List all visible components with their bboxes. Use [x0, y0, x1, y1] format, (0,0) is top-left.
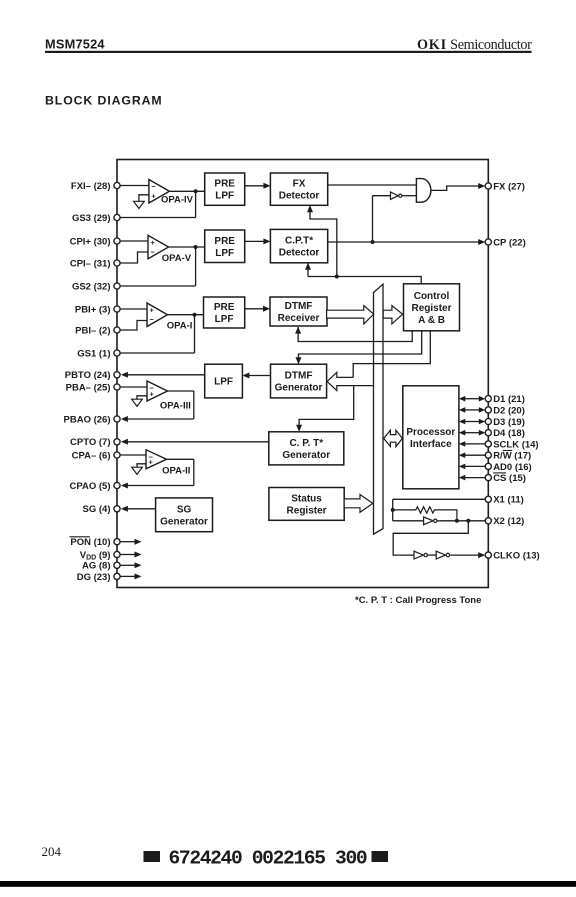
- pin PBAO (26): [64, 414, 121, 425]
- svg-text:+: +: [150, 390, 155, 399]
- bus arrow bus to DTMF Generator: [327, 372, 373, 390]
- wire data pin bidirectional: [459, 430, 485, 436]
- svg-text:FXI– (28): FXI– (28): [71, 181, 111, 192]
- wire Control Register to DTMF Receiver bottom: [295, 327, 412, 342]
- pin CPI- (31): [70, 258, 120, 269]
- wire FX Detector to AND gate: [328, 184, 417, 186]
- svg-text:204: 204: [42, 844, 62, 859]
- wire control bus to FX Detector bottom: [307, 205, 337, 276]
- wire OPA-I output to PRE LPF 3: [168, 313, 204, 317]
- block DTMF Receiver: [270, 297, 327, 326]
- wire control pin into Processor Interface: [459, 464, 485, 470]
- svg-text:Receiver: Receiver: [278, 313, 320, 324]
- pin GS1 (1): [77, 348, 120, 359]
- wire clock branch to CLKO buffers: [393, 521, 468, 555]
- svg-text:CPAO (5): CPAO (5): [70, 481, 111, 492]
- wire C.P.T Detector output to CP pin: [328, 239, 486, 245]
- svg-text:LPF: LPF: [215, 191, 234, 202]
- svg-text:Detector: Detector: [279, 248, 320, 259]
- wire PBA- to OPA-III: [120, 386, 147, 388]
- wire buffer to CLKO pin: [450, 552, 485, 558]
- svg-text:DG (23): DG (23): [77, 572, 111, 583]
- block DTMF Generator: [271, 364, 327, 398]
- svg-text:−: −: [150, 315, 155, 324]
- pin VDD: [80, 550, 120, 562]
- pin D3 (19): [485, 417, 525, 428]
- op-amp OPA-IV: [149, 180, 194, 206]
- pin PBI- (2): [75, 325, 120, 336]
- svg-text:DTMF: DTMF: [285, 301, 313, 312]
- svg-text:OPA-I: OPA-I: [167, 321, 193, 332]
- wire data pin bidirectional: [459, 407, 485, 413]
- ground for OPA-III: [132, 396, 147, 407]
- svg-text:OKI Semiconductor: OKI Semiconductor: [417, 37, 532, 53]
- block FX Detector: [270, 173, 327, 205]
- svg-text:CS (15): CS (15): [493, 473, 526, 484]
- ground for OPA-IV: [134, 195, 149, 209]
- pin FXI- (28): [71, 181, 120, 192]
- wire PRE LPF2 to C.P.T Detector: [245, 238, 271, 244]
- wire inverter to AND gate: [402, 195, 416, 197]
- pin CPA- (6): [72, 450, 120, 461]
- svg-text:D1 (21): D1 (21): [493, 394, 525, 405]
- resistor feedback R: [393, 507, 457, 521]
- wire CPA- to OPA-II: [120, 454, 146, 456]
- wire between clock buffers: [427, 554, 436, 556]
- wire OPA-III output to PBAO pin: [121, 391, 194, 422]
- pin CP (22): [485, 237, 526, 248]
- wire OPA-IV output to PRE LPF 1: [169, 189, 204, 193]
- wire control pin into Processor Interface: [459, 475, 485, 481]
- svg-text:C.P.T*: C.P.T*: [285, 236, 313, 247]
- svg-text:*C. P. T : Call Progress Tone: *C. P. T : Call Progress Tone: [355, 595, 481, 606]
- wire bus tap to C.P.T Generator top: [296, 386, 354, 432]
- svg-text:D2 (20): D2 (20): [493, 405, 525, 416]
- svg-text:A & B: A & B: [418, 315, 445, 326]
- svg-text:PBI+ (3): PBI+ (3): [75, 304, 111, 315]
- svg-text:OPA-II: OPA-II: [162, 465, 190, 476]
- clock buffer inverter 1: [414, 551, 427, 559]
- svg-text:Register: Register: [287, 505, 327, 516]
- wire CP node up to inverter: [373, 196, 391, 242]
- svg-text:6724240 0022165 300: 6724240 0022165 300: [169, 848, 367, 870]
- wire SG Generator to SG pin: [121, 506, 156, 512]
- header rule: [45, 51, 532, 53]
- pin CPI+ (30): [70, 236, 121, 247]
- wire data pin bidirectional: [459, 396, 485, 402]
- svg-text:D3 (19): D3 (19): [493, 417, 525, 428]
- pin PON: [70, 537, 121, 548]
- svg-text:OPA-IV: OPA-IV: [161, 195, 194, 206]
- svg-text:MSM7524: MSM7524: [45, 37, 105, 52]
- svg-text:PBI– (2): PBI– (2): [75, 325, 110, 336]
- svg-text:AG (8): AG (8): [82, 561, 111, 572]
- svg-text:−: −: [151, 247, 156, 256]
- clock buffer inverter 2: [436, 551, 449, 559]
- wire PRE LPF1 to FX Detector: [245, 183, 271, 189]
- pin D1 (21): [485, 394, 525, 405]
- bus arrow Processor Interface bidirectional: [384, 430, 403, 446]
- ground for OPA-II: [132, 464, 146, 475]
- svg-text:OPA-V: OPA-V: [162, 253, 192, 264]
- bus arrow Status Register to bus: [344, 495, 373, 513]
- barcode right block: [372, 851, 389, 862]
- wire control pin into Processor Interface: [459, 452, 485, 458]
- pin GS2 (32): [72, 281, 120, 292]
- wire X1/X2 left vertical: [391, 499, 395, 521]
- wire C.P.T Generator to CPTO pin: [121, 439, 269, 445]
- pin SCLK (14): [485, 439, 538, 450]
- pin FX (27): [485, 181, 525, 192]
- wire control pin into Processor Interface: [459, 441, 485, 447]
- pin D2 (20): [485, 405, 525, 416]
- svg-text:Control: Control: [414, 291, 450, 302]
- svg-text:DTMF: DTMF: [285, 371, 313, 382]
- block Control Register A and B: [404, 284, 460, 331]
- pin AG (8): [82, 561, 120, 572]
- wire LPF to PBTO pin: [121, 372, 205, 378]
- block PRE LPF 3: [204, 297, 245, 328]
- svg-text:CPTO (7): CPTO (7): [70, 437, 110, 448]
- wire X2 line: [393, 519, 486, 523]
- wire VDD input stub: [120, 552, 141, 558]
- pin DG (23): [77, 572, 120, 583]
- svg-text:CPA– (6): CPA– (6): [72, 450, 111, 461]
- svg-text:PBTO (24): PBTO (24): [65, 370, 111, 381]
- op-amp OPA-I: [147, 303, 192, 332]
- svg-text:PRE: PRE: [214, 236, 235, 247]
- wire PBI- to OPA-I inverting input: [120, 321, 147, 331]
- svg-text:X1 (11): X1 (11): [493, 495, 524, 506]
- svg-text:CPI– (31): CPI– (31): [70, 258, 111, 269]
- wire detector control line to Control Register top: [308, 275, 421, 284]
- pin X2 (12): [485, 516, 524, 527]
- svg-text:+: +: [151, 238, 156, 247]
- wire OPA-V output feedback to GS2: [120, 247, 196, 286]
- svg-text:BLOCK DIAGRAM: BLOCK DIAGRAM: [45, 94, 163, 108]
- wire OPA-I output feedback to GS1: [120, 315, 194, 353]
- pin D4 (18): [485, 428, 525, 439]
- svg-text:CPI+ (30): CPI+ (30): [70, 236, 111, 247]
- wire X1 line: [393, 498, 486, 500]
- block PRE LPF 2: [205, 230, 245, 263]
- svg-text:PON (10): PON (10): [70, 537, 110, 548]
- wire control bus to C.P.T Detector bottom: [305, 263, 311, 277]
- svg-text:FX (27): FX (27): [493, 181, 525, 192]
- svg-text:GS2 (32): GS2 (32): [72, 281, 111, 292]
- AND gate U1: [416, 179, 430, 203]
- wire FXI- to OPA-IV inverting input: [120, 185, 149, 187]
- wire DTMF Generator to LPF: [242, 373, 270, 379]
- pin SG (4): [83, 504, 121, 515]
- svg-text:PRE: PRE: [214, 302, 235, 313]
- svg-text:Generator: Generator: [275, 383, 323, 394]
- svg-text:PBA– (25): PBA– (25): [66, 382, 111, 393]
- pin X1 (11): [485, 495, 524, 506]
- op-amp OPA-III: [147, 381, 191, 411]
- svg-text:Generator: Generator: [282, 450, 330, 461]
- op-amp OPA-II: [146, 450, 190, 477]
- pin PBI+ (3): [75, 304, 120, 315]
- svg-text:PBAO (26): PBAO (26): [64, 414, 111, 425]
- block LPF: [205, 364, 243, 398]
- svg-text:+: +: [149, 457, 154, 466]
- wire DG input stub: [120, 573, 141, 579]
- svg-text:LPF: LPF: [214, 377, 233, 388]
- svg-text:SG (4): SG (4): [83, 504, 111, 515]
- pin CLKO (13): [485, 551, 539, 562]
- svg-text:Generator: Generator: [160, 516, 208, 527]
- svg-text:−: −: [151, 182, 156, 191]
- svg-text:SCLK (14): SCLK (14): [493, 439, 538, 450]
- oscillator inverter on X2 line: [424, 517, 437, 525]
- svg-text:Status: Status: [291, 493, 322, 504]
- block C.P.T Generator: [269, 432, 344, 465]
- svg-text:D4 (18): D4 (18): [493, 428, 525, 439]
- chip boundary box: [117, 160, 488, 588]
- wire data pin bidirectional: [459, 419, 485, 425]
- wire AG input stub: [120, 562, 141, 568]
- wire OPA-IV output feedback to GS3: [120, 191, 196, 217]
- bottom black bar: [0, 881, 576, 887]
- svg-text:Processor: Processor: [406, 427, 455, 438]
- wire CPI- to OPA-V inverting input: [120, 252, 148, 263]
- header logo OKI Semiconductor: [417, 37, 532, 53]
- data bus vertical band: [374, 284, 384, 534]
- wire Control Register to DTMF Generator top: [296, 331, 422, 364]
- svg-text:LPF: LPF: [215, 314, 234, 325]
- wire PON input stub: [120, 539, 141, 545]
- op-amp OPA-V: [148, 235, 192, 264]
- pin PBTO (24): [65, 370, 120, 381]
- svg-text:OPA-III: OPA-III: [160, 400, 191, 411]
- svg-text:GS1 (1): GS1 (1): [77, 348, 110, 359]
- svg-text:+: +: [151, 192, 156, 201]
- svg-text:Detector: Detector: [279, 191, 320, 202]
- inverter before AND gate: [391, 192, 402, 199]
- pin AD0 (16): [485, 462, 532, 473]
- wire PRE LPF3 to DTMF Receiver: [245, 306, 270, 312]
- bus arrow bus to Control Register: [383, 306, 402, 324]
- block C.P.T Detector: [270, 229, 327, 262]
- svg-text:LPF: LPF: [215, 248, 234, 259]
- pin GS3 (29): [72, 213, 120, 224]
- pin CS: [485, 473, 526, 484]
- wire AND gate output to FX pin: [431, 183, 485, 190]
- block PRE LPF 1: [205, 173, 245, 205]
- svg-text:AD0 (16): AD0 (16): [493, 462, 532, 473]
- pin PBA- (25): [66, 382, 120, 393]
- svg-text:FX: FX: [293, 179, 306, 190]
- block SG Generator: [156, 498, 213, 532]
- wire CPI+ to OPA-V: [120, 240, 148, 242]
- svg-text:Interface: Interface: [410, 439, 452, 450]
- block Processor Interface: [403, 386, 459, 489]
- svg-text:SG: SG: [177, 504, 192, 515]
- block Status Register: [269, 488, 344, 521]
- svg-text:R/W (17): R/W (17): [493, 451, 531, 462]
- pin CPTO (7): [70, 437, 120, 448]
- pin RW: [485, 451, 531, 462]
- svg-text:GS3 (29): GS3 (29): [72, 213, 111, 224]
- wire PBI+ to OPA-I: [120, 308, 147, 310]
- svg-text:X2 (12): X2 (12): [493, 516, 524, 527]
- svg-text:+: +: [150, 306, 155, 315]
- svg-text:CP (22): CP (22): [493, 237, 526, 248]
- wire OPA-V output to PRE LPF 2: [169, 245, 205, 249]
- barcode left block: [144, 851, 161, 862]
- svg-text:Register: Register: [411, 303, 451, 314]
- svg-text:C. P. T*: C. P. T*: [289, 438, 323, 449]
- bus arrow DTMF Receiver to bus: [327, 306, 374, 324]
- svg-text:CLKO (13): CLKO (13): [493, 551, 539, 562]
- wire OPA-II output to CPAO pin: [121, 459, 194, 488]
- pin CPAO (5): [70, 481, 121, 492]
- wire Control Register to data bus stub: [353, 331, 430, 378]
- svg-text:PRE: PRE: [214, 179, 235, 190]
